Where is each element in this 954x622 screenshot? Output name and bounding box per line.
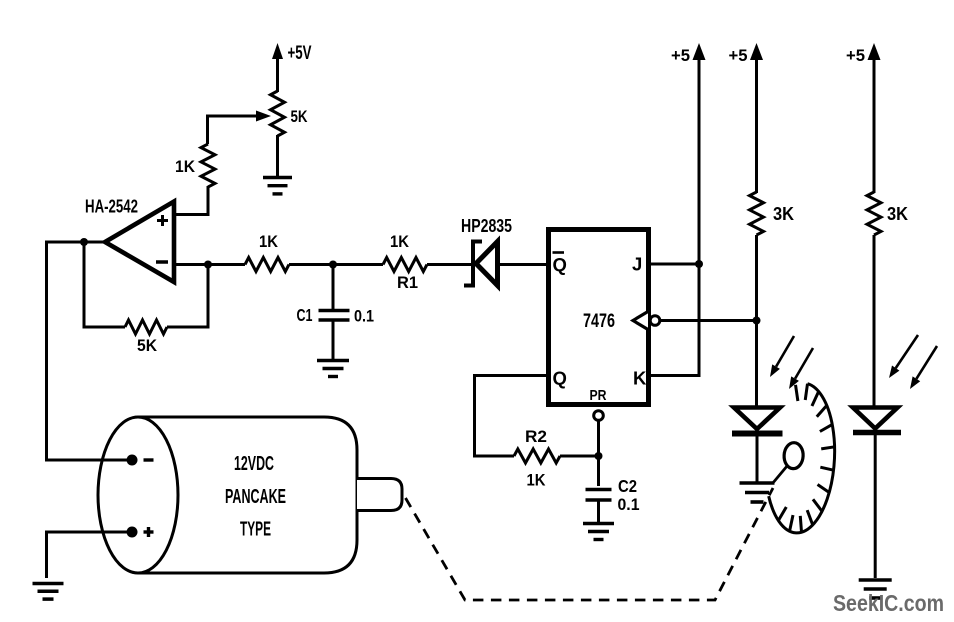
- svg-text:1K: 1K: [390, 232, 410, 251]
- wire 3K to LED2: [873, 235, 876, 408]
- light arrows into D2: [770, 336, 813, 389]
- resistor 5K (feedback): [125, 320, 167, 355]
- light arrows into D3: [889, 335, 937, 389]
- ground (D2): [740, 483, 775, 502]
- svg-text:J: J: [632, 254, 642, 275]
- op-amp U1 HA-2542: [85, 197, 174, 283]
- wire 1K to op-amp + input: [175, 186, 208, 215]
- svg-text:SeekIC.com: SeekIC.com: [833, 590, 944, 616]
- svg-text:+5: +5: [729, 46, 748, 65]
- svg-text:+5: +5: [671, 46, 690, 65]
- svg-text:+5: +5: [846, 46, 865, 65]
- wire op-amp inverting to 1K: [174, 263, 245, 266]
- svg-text:Q: Q: [553, 368, 567, 389]
- svg-text:5K: 5K: [291, 107, 309, 126]
- wire 1K to R1 through C1 node: [289, 263, 383, 266]
- ground (C1): [317, 361, 349, 377]
- svg-text:HA-2542: HA-2542: [85, 197, 138, 217]
- wire PR bubble to node: [597, 421, 600, 487]
- svg-text:5K: 5K: [137, 336, 158, 355]
- svg-text:0.1: 0.1: [354, 307, 374, 326]
- node PR junction: [595, 452, 603, 460]
- wire R2 to PR node: [560, 455, 599, 458]
- svg-text:C1: C1: [297, 305, 313, 325]
- photodiode D3 (right): [853, 408, 901, 433]
- wire clock to 3K rail: [660, 319, 757, 322]
- wire Q to R2: [475, 376, 548, 457]
- wire left rail to motor minus terminal: [45, 459, 132, 462]
- svg-text:3K: 3K: [887, 204, 908, 224]
- power +5 (LED2 rail): [846, 43, 881, 193]
- capacitor C1 0.1: [297, 305, 375, 326]
- wire pot to ground: [276, 135, 279, 177]
- photodiode D2 (left): [732, 408, 783, 434]
- svg-text:R2: R2: [525, 427, 547, 446]
- node output junction: [80, 238, 88, 246]
- power +5 (clock/LED1 rail): [729, 43, 764, 193]
- resistor R1 1K: [383, 232, 427, 292]
- svg-text:PR: PR: [590, 387, 607, 404]
- svg-text:Q: Q: [553, 254, 567, 275]
- ground (D3): [859, 580, 892, 598]
- svg-text:TYPE: TYPE: [240, 519, 271, 541]
- ground (C2): [583, 524, 614, 540]
- svg-text:1K: 1K: [175, 157, 196, 176]
- svg-text:12VDC: 12VDC: [234, 453, 274, 475]
- wire C2 to ground: [597, 500, 600, 523]
- node inverting input junction: [204, 261, 212, 269]
- wire motor plus terminal to ground: [47, 532, 133, 578]
- resistor 1K (to non-inverting input): [175, 144, 215, 187]
- potentiometer 5K with wiper arrow: [208, 91, 309, 144]
- power rail +5V (pot supply): [272, 43, 312, 92]
- encoder wheel (slotted disc): [767, 382, 839, 535]
- motor minus terminal: [127, 455, 154, 466]
- wire node to C1: [332, 265, 335, 310]
- wire C1 to ground: [332, 320, 335, 360]
- svg-text:7476: 7476: [583, 311, 615, 332]
- node clock junction: [753, 317, 761, 325]
- wire K to +5 rail: [651, 264, 699, 376]
- svg-text:PANCAKE: PANCAKE: [225, 486, 286, 508]
- node J junction: [695, 260, 703, 268]
- wire diode to 7476 Qbar: [498, 263, 547, 266]
- power +5 (J/K rail): [671, 43, 706, 376]
- capacitor C2 0.1: [586, 476, 640, 514]
- resistor 3K (left): [750, 192, 795, 235]
- wire J output to +5 rail: [651, 263, 699, 266]
- svg-text:1K: 1K: [259, 232, 279, 251]
- svg-text:+5V: +5V: [288, 43, 312, 64]
- svg-text:0.1: 0.1: [618, 495, 640, 514]
- svg-text:1K: 1K: [527, 471, 547, 490]
- svg-text:HP2835: HP2835: [461, 216, 512, 236]
- wire op-amp output to left rail: [47, 242, 106, 460]
- wire D2 to ground: [756, 434, 759, 483]
- dashed shaft coupling line: [406, 488, 774, 600]
- resistor 1K (series, after op-amp): [245, 232, 289, 272]
- svg-text:R1: R1: [397, 273, 418, 292]
- ground (pot): [263, 178, 292, 194]
- svg-text:C2: C2: [618, 476, 637, 496]
- ground (motor): [33, 584, 64, 600]
- flip-flop U2 7476: [549, 230, 660, 421]
- wire R1 to diode: [427, 263, 473, 266]
- wire 3K to LED1: [755, 235, 758, 408]
- svg-text:K: K: [633, 368, 647, 389]
- diode D1 HP2835 (Schottky): [461, 216, 512, 288]
- svg-text:3K: 3K: [773, 204, 794, 224]
- wire output node down to 5K feedback: [84, 242, 125, 327]
- wire 5K feedback to inverting node: [167, 265, 208, 328]
- motor M1 12VDC pancake body: [98, 417, 402, 573]
- wire D3 to ground: [874, 433, 877, 579]
- node C1 junction: [329, 261, 337, 269]
- motor plus terminal: [127, 527, 154, 538]
- resistor R2 1K: [514, 427, 560, 490]
- resistor 3K (right): [867, 192, 908, 235]
